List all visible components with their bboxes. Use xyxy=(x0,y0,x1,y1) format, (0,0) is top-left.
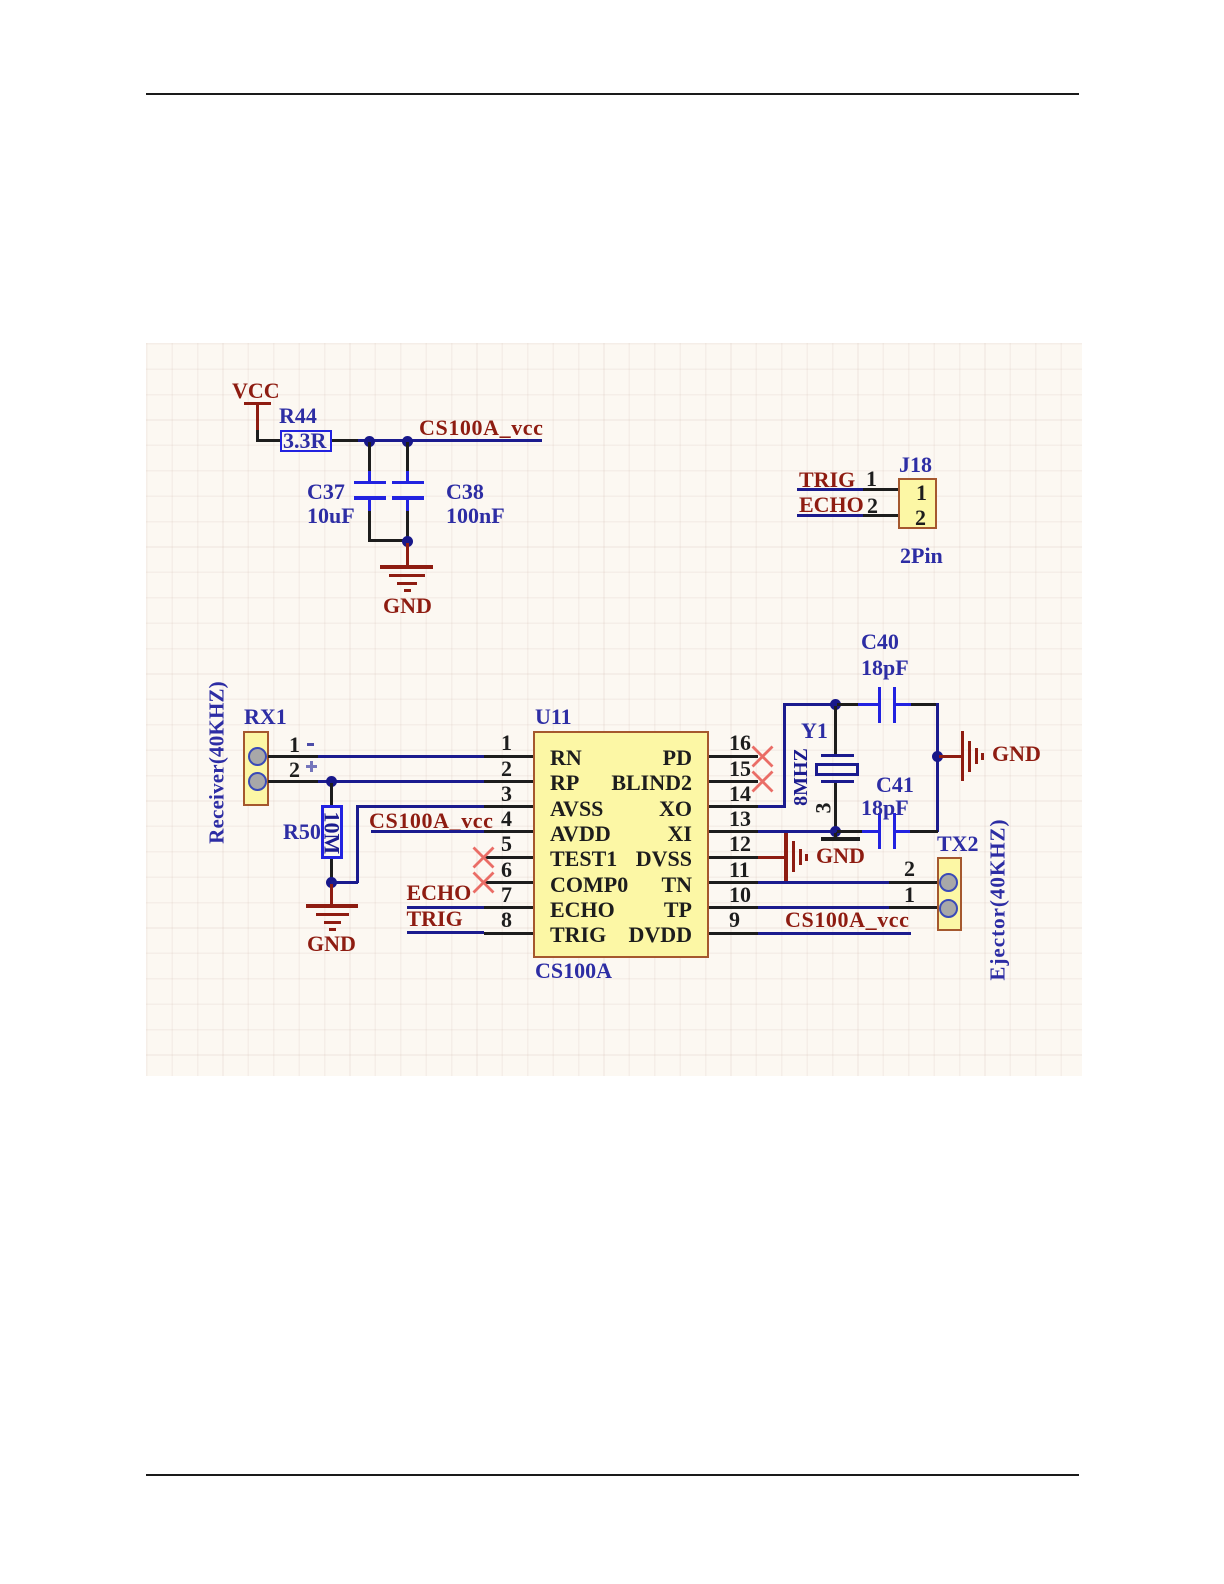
wire gnd rail right xyxy=(936,703,939,832)
wire AVDD (pin4) xyxy=(371,830,484,833)
net label CS100A_vcc xyxy=(419,417,544,439)
crystal pin3 label xyxy=(813,803,835,814)
connector J18 xyxy=(899,454,932,476)
wire TP (pin10) to TX2 pin1 xyxy=(758,906,889,909)
crystal case pin bar xyxy=(834,832,837,838)
pin number 2 J18 xyxy=(867,495,878,517)
resistor R50 xyxy=(330,783,333,806)
pin number 2 RX1 xyxy=(289,759,300,781)
capacitor C37 xyxy=(368,442,371,471)
wire ECHO xyxy=(797,514,863,517)
capacitor C41 xyxy=(837,830,862,833)
pin circle TX2-1 xyxy=(939,899,958,918)
net label ECHO (J18 pin2) xyxy=(799,494,864,516)
node junction gnd rail xyxy=(932,751,943,762)
node junction crystal bottom xyxy=(830,826,841,837)
crystal Y1 xyxy=(834,706,837,754)
pin name minus xyxy=(307,743,314,747)
U11 pin numbers left xyxy=(501,732,512,754)
wire cap bottoms xyxy=(368,539,410,542)
wire TN (pin11) to TX2 pin2 xyxy=(758,881,889,884)
no-connect X pin6 xyxy=(472,871,495,894)
U11 pin numbers right xyxy=(729,732,751,754)
net label TRIG (pin8) xyxy=(407,908,463,930)
resistor R44 xyxy=(280,430,332,452)
net label TRIG (J18 pin1) xyxy=(799,469,855,491)
wire DVDD (pin9) xyxy=(758,932,911,935)
wire RX1 pin2 to U11 RP xyxy=(268,780,318,783)
connector TX2 xyxy=(937,833,979,855)
net label CS100A_vcc (DVDD pin9) xyxy=(785,909,910,931)
U11 pin names left xyxy=(550,747,582,769)
wire RX1 pin1 to U11 RN xyxy=(268,755,318,758)
node junction C38 xyxy=(402,436,413,447)
capacitor C40 xyxy=(837,703,859,706)
node junction R50 top xyxy=(326,776,337,787)
bottom rule xyxy=(146,1474,1079,1476)
capacitor C38 xyxy=(406,442,409,471)
label Ejector (40KHZ) xyxy=(988,815,1009,985)
wire ECHO pin7 xyxy=(407,906,485,909)
node junction C37 xyxy=(364,436,375,447)
U11 left pin stubs xyxy=(484,755,533,758)
node junction gnd xyxy=(402,536,413,547)
ground GND pin12 xyxy=(784,833,788,883)
label 8MHZ xyxy=(791,742,811,812)
label Receiver (40KHZ) xyxy=(207,678,228,848)
pin number 1 J18 xyxy=(866,468,877,490)
wire R50 bottom to AVSS riser xyxy=(331,881,358,884)
wire DVSS (pin12) to ground xyxy=(758,856,784,859)
power port VCC xyxy=(232,380,280,402)
node junction crystal top xyxy=(830,699,841,710)
U11 pin names right xyxy=(560,747,692,769)
net label ECHO (pin7) xyxy=(407,882,472,904)
pin number 2 TX2 xyxy=(904,858,915,880)
IC U11 CS100A xyxy=(535,706,572,728)
no-connect X pin16 xyxy=(751,745,774,768)
top rule xyxy=(146,93,1079,95)
pin name plus xyxy=(306,765,317,768)
ground GND right rail xyxy=(939,755,961,758)
ground GND below R50 xyxy=(330,884,333,904)
wire AVSS (pin3) xyxy=(357,805,484,808)
node junction R50 bottom xyxy=(326,877,337,888)
pin number 1 TX2 xyxy=(904,884,915,906)
pin circle TX2-2 xyxy=(939,873,958,892)
U11 right pin stubs xyxy=(709,755,758,758)
wire VCC to R44 xyxy=(256,430,259,443)
no-connect X pin15 xyxy=(751,770,774,793)
wire XI (pin13) xyxy=(758,830,836,833)
wire TRIG xyxy=(797,488,863,491)
wire TRIG pin8 xyxy=(407,931,485,934)
connector RX1 xyxy=(244,706,287,728)
wire XO (pin14) riser xyxy=(758,805,785,808)
schematic sheet background with grid xyxy=(146,343,1082,1076)
pin circle RX1-1 xyxy=(248,747,267,766)
net label CS100A_vcc (AVDD) xyxy=(369,810,494,832)
ground GND top xyxy=(406,543,409,565)
no-connect X pin5 xyxy=(472,846,495,869)
wire CS100A_vcc net xyxy=(358,439,542,442)
wire R44 to junction xyxy=(332,439,358,442)
pin circle RX1-2 xyxy=(248,772,267,791)
pin number 1 RX1 xyxy=(289,734,300,756)
